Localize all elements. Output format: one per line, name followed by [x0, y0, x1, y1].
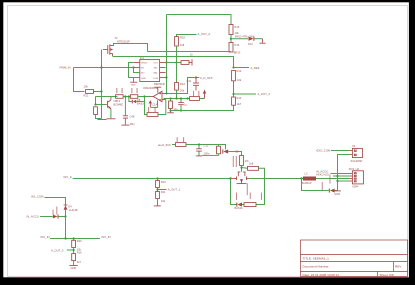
- node gate/pwm junction: [100, 66, 102, 68]
- capacitor on rail x181: [178, 97, 187, 111]
- wire IN1_COM stub: [45, 198, 66, 205]
- ground IC: [130, 78, 137, 87]
- svg-text:AKKU+(5): AKKU+(5): [316, 172, 329, 176]
- resistor R27: [130, 88, 137, 98]
- wire A_REF divider top node: [232, 66, 234, 68]
- transistor T1 pass fet: [232, 168, 249, 195]
- svg-text:R11: R11: [161, 190, 166, 194]
- resistor gate R: [248, 162, 259, 171]
- ground after D12: [260, 39, 266, 44]
- wire aux2 stub: [172, 144, 176, 146]
- connector X3: [349, 144, 363, 163]
- resistor R12: [232, 69, 242, 82]
- op-amp IC1A OPA2336UA: [143, 86, 166, 107]
- node A_OUT_1: [156, 188, 180, 194]
- wire zener to gate resistor: [228, 152, 241, 156]
- wire gate R to right loop leg: [256, 168, 265, 204]
- connector X2: [349, 167, 364, 189]
- wire aux node to corner: [186, 145, 226, 150]
- IC3 pins left: [134, 63, 140, 78]
- node loop tap: [229, 177, 231, 179]
- svg-text:A_OUT_3: A_OUT_3: [51, 248, 64, 252]
- wire R18 top to A_OUT_A: [177, 35, 197, 37]
- wire feedback loop: [145, 97, 148, 115]
- svg-text:4k7: 4k7: [237, 102, 242, 106]
- diode loop D7: [235, 193, 245, 210]
- svg-text:4k7: 4k7: [77, 260, 82, 264]
- diode zener ZD1: [222, 149, 239, 153]
- supply arrow below op-amp: [149, 100, 158, 107]
- node C48 tap: [124, 95, 126, 97]
- resistor loop: [244, 193, 262, 207]
- node x95 junction: [94, 103, 96, 105]
- wire INV_IN bottom: [50, 238, 100, 240]
- node pin4 junction: [336, 180, 338, 182]
- svg-text:OUT: OUT: [153, 62, 158, 64]
- divider A_OUT_1 on trunk: [156, 177, 158, 179]
- svg-text:R22: R22: [84, 94, 89, 98]
- svg-text:REV:: REV:: [395, 265, 402, 269]
- resistor feedback R25: [147, 107, 158, 116]
- svg-text:A_D_OFF: A_D_OFF: [200, 76, 213, 80]
- title block text: [303, 256, 403, 277]
- node D5 junction: [64, 215, 66, 217]
- svg-text:INV_IN: INV_IN: [41, 235, 50, 239]
- wire R17 to gate node: [241, 166, 243, 168]
- node rail junctions: [169, 97, 171, 99]
- node R23 column junction: [175, 61, 177, 63]
- ground divider: [154, 205, 161, 207]
- node column junction: [64, 237, 66, 239]
- resistor aux shunt: [217, 145, 221, 156]
- node pin2 junction: [336, 175, 338, 177]
- wire plus input to A_D_OFF corner: [166, 78, 196, 94]
- node A_OUT_3 bottom: [51, 247, 82, 254]
- resistor R10: [156, 179, 167, 188]
- wire IN_ACCU to X2 pin1: [331, 173, 350, 175]
- svg-text:INV_In: INV_In: [64, 175, 73, 179]
- resistor R15: [229, 25, 240, 36]
- svg-text:A_OUT_A: A_OUT_A: [198, 32, 211, 36]
- wire between R26 R27: [123, 96, 130, 98]
- ground T2 gate pulldown: [98, 119, 107, 121]
- wire R27 to op-amp output: [138, 96, 151, 98]
- transistor Q1 BC848C: [106, 97, 123, 119]
- wire column x176.8: [176, 46, 178, 83]
- resistor R17: [233, 156, 250, 168]
- IC3 pins right: [160, 63, 166, 78]
- node feedback tap: [143, 95, 145, 97]
- resistor R18: [175, 36, 186, 47]
- node D8 tap: [128, 95, 130, 97]
- wire trunk INV_IN: [64, 175, 232, 179]
- resistor R13: [232, 96, 242, 106]
- wire feedback to minus input: [158, 100, 166, 115]
- svg-text:X2R4: X2R4: [352, 185, 359, 189]
- svg-text:BLM41P: BLM41P: [302, 181, 312, 185]
- svg-text:REF5040: REF5040: [154, 82, 166, 86]
- svg-text:INV_IN: INV_IN: [102, 235, 111, 239]
- svg-text:R15: R15: [235, 25, 240, 29]
- svg-text:IN_ACCU: IN_ACCU: [27, 215, 39, 219]
- wire resistor chain rail y96.3: [96, 96, 118, 98]
- node BR13 junction: [230, 38, 232, 40]
- wire A_OUT_3 stub: [234, 93, 257, 95]
- svg-text:TITLE: SEDMA2_1: TITLE: SEDMA2_1: [303, 256, 330, 260]
- svg-text:MV4_U2: MV4_U2: [349, 167, 360, 171]
- wire D6 loop: [302, 179, 329, 191]
- svg-text:A_REF: A_REF: [251, 66, 260, 70]
- svg-text:1k8: 1k8: [180, 43, 185, 47]
- diode D6: [322, 175, 338, 193]
- wire base branch: [96, 97, 107, 105]
- resistor R24: [175, 82, 186, 93]
- svg-text:GND: GND: [71, 266, 77, 270]
- svg-text:OPA2336UA: OPA2336UA: [143, 86, 158, 90]
- svg-text:R12: R12: [237, 69, 242, 73]
- wire T2 gate column x101.8: [101, 50, 103, 119]
- svg-text:A_OUT_1: A_OUT_1: [168, 188, 181, 192]
- wire main rail y52: [148, 51, 232, 53]
- wire IC shdn-gnd bracket: [129, 63, 140, 78]
- inductor L2: [302, 171, 317, 184]
- svg-text:R10: R10: [161, 180, 166, 184]
- resistor R19: [72, 254, 82, 266]
- svg-text:1k8: 1k8: [249, 162, 254, 166]
- svg-text:IN1_COM: IN1_COM: [31, 195, 44, 199]
- diode D4: [64, 205, 78, 217]
- wire R12 to node: [233, 81, 235, 97]
- svg-text:BR13: BR13: [234, 51, 241, 55]
- resistor R20: [72, 239, 82, 248]
- wire to D5: [40, 216, 53, 218]
- svg-text:10k: 10k: [235, 31, 240, 35]
- svg-text:Document Number:: Document Number:: [303, 265, 330, 269]
- IC3 regulator box: [140, 56, 166, 86]
- node gate junction: [240, 166, 242, 168]
- wire column to INV_IN: [65, 217, 67, 239]
- wire aux shunt to gnd stub: [202, 155, 218, 157]
- wire column x166 VREG OUT: [166, 15, 168, 94]
- ground C48: [121, 124, 129, 126]
- wire A_D_OFF stub: [196, 77, 199, 79]
- svg-text:D12: D12: [248, 42, 253, 46]
- node gnd rail junction: [169, 109, 171, 111]
- node base junction: [100, 90, 102, 92]
- diode D5: [53, 207, 66, 219]
- svg-text:C41: C41: [187, 79, 192, 83]
- svg-text:GND: GND: [131, 85, 136, 87]
- terminal bar after R23: [190, 53, 193, 66]
- svg-text:IC3: IC3: [140, 56, 145, 60]
- wire R24 to y98 rail: [176, 90, 178, 98]
- capacitor C41: [187, 78, 200, 96]
- resistor base pulldown: [94, 107, 102, 119]
- svg-text:R18: R18: [180, 36, 185, 40]
- node R20 junction: [73, 237, 75, 239]
- svg-text:R13: R13: [237, 96, 242, 100]
- node OUT column junction: [165, 61, 167, 63]
- svg-text:GND: GND: [334, 192, 340, 196]
- svg-text:R20: R20: [77, 239, 82, 243]
- wire rail y110 to divider: [171, 105, 234, 110]
- wire top trunk from node VREG to R15: [167, 15, 232, 25]
- svg-text:S1G2W97: S1G2W97: [351, 159, 364, 163]
- wire PWM_IN: [60, 66, 134, 70]
- node IC pin2 junction: [132, 66, 134, 68]
- wire D8 branch: [129, 97, 132, 102]
- wire OUT to R23: [166, 62, 181, 64]
- node C12 tap: [198, 143, 200, 145]
- supply arrow right: [203, 90, 206, 99]
- svg-text:SHDN: SHDN: [141, 62, 148, 64]
- wire X2 pin4 from gnd column: [338, 180, 350, 182]
- ground emitter: [107, 118, 116, 120]
- node A_D_OFF junction: [195, 76, 197, 78]
- resistor R28 on rail: [190, 97, 205, 101]
- wire X3 pin2 down to gnd: [338, 155, 350, 191]
- wire D12 to gnd: [255, 38, 263, 40]
- svg-text:PWM_IN: PWM_IN: [60, 66, 71, 70]
- resistor R16: [229, 43, 241, 55]
- node COM column junction: [165, 76, 167, 78]
- wire PWM_IN stub down to R22: [74, 68, 85, 92]
- wire L2 to X2 pin3: [316, 178, 349, 180]
- wire trunk right of T1: [249, 178, 304, 180]
- svg-text:4Ru: 4Ru: [130, 122, 135, 126]
- svg-text:10k: 10k: [237, 78, 242, 82]
- svg-text:BAS16: BAS16: [235, 206, 244, 210]
- ground right column: [334, 191, 341, 196]
- svg-text:Sheet: 6/8: Sheet: 6/8: [380, 273, 394, 277]
- wire T2 drain step to rail: [114, 44, 148, 52]
- ground C12: [196, 155, 202, 157]
- resistor aux series: [176, 137, 187, 146]
- resistor R22: [84, 84, 97, 97]
- svg-text:20k: 20k: [180, 89, 185, 93]
- svg-text:EXU_COM: EXU_COM: [317, 149, 332, 153]
- svg-text:10k: 10k: [161, 199, 166, 203]
- svg-text:A_OUT_3: A_OUT_3: [258, 92, 271, 96]
- diode D8: [132, 98, 146, 106]
- svg-text:C48: C48: [130, 114, 135, 118]
- resistor R26: [116, 88, 124, 98]
- wire R15 to R16: [230, 35, 232, 43]
- wire R22 to base node: [97, 91, 102, 93]
- capacitor C12: [196, 143, 210, 155]
- svg-text:COM: COM: [153, 78, 158, 80]
- svg-text:aux2_5V0: aux2_5V0: [158, 143, 171, 147]
- svg-text:NTR2101P: NTR2101P: [117, 39, 130, 43]
- diode D12: [248, 37, 254, 47]
- svg-text:BC848C: BC848C: [114, 102, 124, 106]
- wire pin2 to pin3: [134, 68, 140, 73]
- svg-text:100n: 100n: [204, 151, 210, 155]
- wire rail y98.3: [164, 98, 190, 100]
- svg-text:R24: R24: [180, 82, 185, 86]
- wire X2 pin2 from gnd column: [333, 175, 349, 177]
- resistor 4Ru to gnd: [169, 99, 179, 112]
- wire A_REF stub: [234, 67, 250, 69]
- title block outer box: [301, 240, 408, 277]
- svg-text:Date: 22.01.2008 10:06:11: Date: 22.01.2008 10:06:11: [303, 273, 340, 277]
- wire gate node to gate R: [242, 167, 248, 170]
- wire loop left leg: [231, 179, 237, 205]
- capacitor C48: [123, 97, 135, 126]
- ground below 4Ru: [167, 111, 174, 113]
- svg-text:C12: C12: [204, 143, 209, 147]
- svg-text:X3: X3: [352, 144, 356, 148]
- wire EXU_COM to X3 pin1: [331, 150, 349, 152]
- svg-text:GND: GND: [141, 78, 146, 80]
- resistor R23: [181, 61, 192, 65]
- ground bottom cluster: [69, 265, 77, 270]
- svg-text:R16: R16: [235, 43, 240, 47]
- wire node to D12: [231, 38, 248, 40]
- transistor T2 NTR2101P: [103, 36, 130, 56]
- node L2 tap: [300, 177, 302, 179]
- svg-text:LL4148: LL4148: [69, 208, 78, 212]
- svg-text:10k: 10k: [84, 84, 89, 88]
- wire T2 source rail y56 to divider: [113, 57, 234, 68]
- node A_OUT_3 junction: [232, 93, 234, 95]
- resistor R11: [156, 192, 166, 206]
- svg-text:R19: R19: [77, 250, 82, 254]
- svg-text:IC1A: IC1A: [152, 103, 158, 107]
